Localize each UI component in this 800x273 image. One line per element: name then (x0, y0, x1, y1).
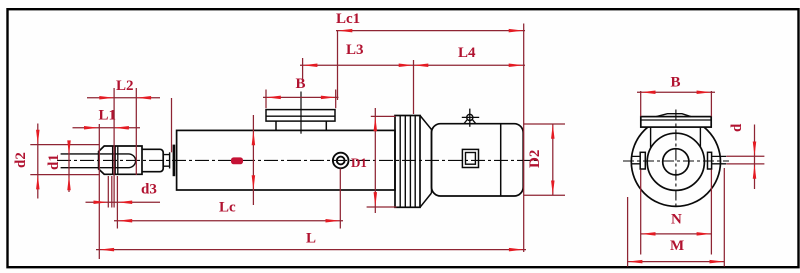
motor housing body (432, 124, 524, 196)
ext line M right (723, 168, 725, 267)
label D blob (231, 157, 243, 164)
end view right tab (708, 152, 712, 169)
vent symbol left leg (464, 120, 467, 124)
end view vertical centerline (675, 110, 677, 210)
dim line d1 (68, 143, 70, 192)
svg-text:D1: D1 (351, 155, 367, 170)
ext line pin center (113, 88, 115, 208)
rod head block (142, 149, 163, 171)
flange ring lines (400, 116, 415, 208)
svg-text:L3: L3 (346, 42, 364, 58)
port flange mid line (266, 115, 335, 117)
end view shaft circle (663, 149, 689, 175)
arrows L3 (303, 64, 318, 68)
ext line d3 right Lc left (116, 176, 118, 229)
dim line d endview (754, 125, 756, 190)
dim line Lc1 (336, 30, 525, 32)
end view horizontal centerline (623, 160, 729, 162)
dim line L2 (87, 97, 160, 99)
arrows N (641, 232, 656, 236)
vent symbol circle (467, 114, 473, 120)
dim line D (252, 115, 254, 205)
ext lines N endview lower (641, 170, 712, 255)
rod gland plate (173, 145, 176, 177)
svg-text:L4: L4 (458, 45, 476, 61)
arrows Lc (117, 219, 132, 223)
vent symbol vertical (469, 109, 471, 127)
port boss (276, 121, 326, 130)
ext line right face (523, 24, 525, 253)
rod neck (163, 155, 169, 167)
ext lines d2 (30, 145, 99, 175)
arrows D1 (374, 116, 378, 131)
end view left shaft lines (631, 156, 640, 163)
arrows L2 outside (99, 96, 114, 100)
arrows L (99, 248, 114, 252)
end view outer housing circle (631, 117, 720, 206)
dim line Lc (114, 220, 343, 222)
svg-text:d1: d1 (46, 154, 62, 170)
ext lines B side (266, 90, 336, 109)
ext lines B endview upper (641, 91, 712, 116)
dim line L3 L4 (300, 64, 525, 66)
end view inner circle (647, 133, 704, 190)
end view cap mid line (641, 119, 711, 121)
svg-text:L1: L1 (99, 108, 117, 124)
svg-text:M: M (670, 238, 684, 254)
arrows L4 (414, 64, 429, 68)
ext lines d endview (726, 156, 764, 164)
svg-text:Lc: Lc (219, 200, 236, 216)
ext line d3 left (107, 176, 109, 208)
arrows d endview outside (753, 142, 757, 157)
ext lines D1 (367, 116, 397, 207)
svg-text:B: B (296, 76, 306, 92)
ext line L3 left (302, 58, 304, 82)
arrows d1 outside (67, 140, 71, 155)
dim line B side (263, 96, 339, 98)
svg-text:d: d (729, 123, 745, 132)
vent symbol horizontal (462, 116, 479, 118)
ext line clevis right (135, 88, 137, 175)
ext line port center lower (339, 169, 341, 229)
ext line pin left (111, 176, 113, 208)
arrows L1 outside (84, 126, 99, 130)
svg-text:B: B (671, 75, 681, 91)
reducer cone bottom diagonal (420, 193, 432, 207)
ext line M left (627, 197, 629, 267)
end view top cap (641, 117, 711, 128)
arrows D (252, 130, 256, 145)
ext line clevis face (98, 124, 100, 259)
end view left tab (640, 152, 645, 169)
dim line N (641, 233, 712, 235)
RED ARROWHEADS (36, 29, 756, 264)
arrows d3 outside (94, 200, 109, 204)
ext lines D2 (524, 124, 565, 195)
dim line L1 (73, 127, 141, 129)
centerline side view (57, 159, 537, 161)
ext line gland (171, 98, 173, 152)
ext line port center upper (337, 31, 339, 100)
junction box inner (466, 153, 476, 165)
rod lines (piston rod protruding left) (61, 154, 129, 168)
clevis pin hole lines (113, 146, 118, 174)
reducer cone waist (431, 130, 433, 194)
svg-text:L2: L2 (116, 78, 134, 94)
dim line B endview (637, 91, 715, 93)
arrows B endview (641, 90, 656, 94)
end view legs (651, 127, 701, 147)
junction box outer (462, 149, 478, 167)
svg-text:L: L (306, 231, 316, 247)
neck end washer line (169, 152, 171, 168)
svg-text:D2: D2 (527, 150, 543, 168)
reducer cone top diagonal (420, 116, 432, 130)
arrows M (628, 260, 643, 264)
rod nose arc in clevis slot (129, 154, 136, 168)
motor end cap line (500, 124, 502, 196)
oil port circle outer (333, 153, 349, 169)
arrows D2 (551, 124, 555, 139)
svg-text:d2: d2 (13, 152, 29, 168)
dim line d3 (86, 201, 161, 203)
arrows d2 outside (36, 130, 40, 145)
rear flange ring block (395, 116, 420, 208)
arrows B side (266, 96, 281, 100)
oil port circle inner (337, 157, 345, 165)
svg-text:N: N (671, 212, 682, 228)
dim line L (96, 249, 526, 251)
ext line L3 L4 shared (413, 60, 415, 114)
vent symbol right leg (472, 120, 475, 124)
port flange plate (266, 110, 335, 122)
arrows Lc1 (338, 29, 353, 32)
port centerline vertical (300, 92, 302, 134)
end view right shaft lines (712, 156, 727, 163)
dim line D2 (552, 124, 554, 195)
end view cap hump (656, 114, 690, 117)
clevis body (99, 146, 142, 174)
cylinder tube body (177, 130, 395, 190)
svg-text:Lc1: Lc1 (336, 11, 360, 27)
dim line D1 (374, 108, 376, 213)
dim line d2 (37, 124, 39, 199)
dim line M (628, 261, 725, 263)
svg-text:d3: d3 (141, 182, 157, 198)
